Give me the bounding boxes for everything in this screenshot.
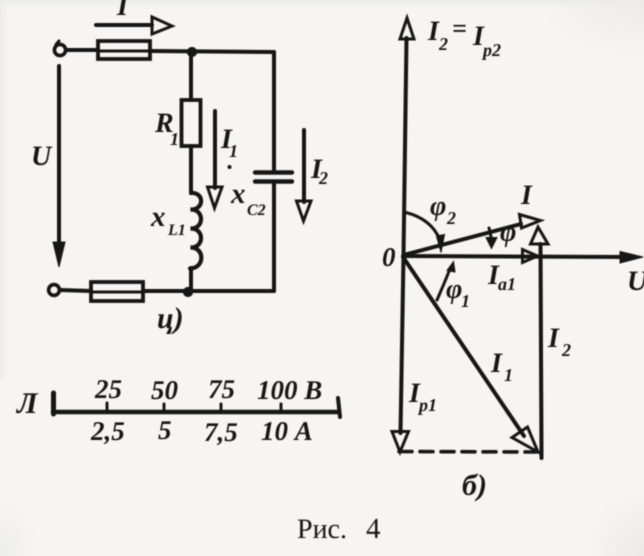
svg-text:=: = <box>452 14 467 43</box>
svg-text:1: 1 <box>504 365 513 385</box>
inductor xL1 <box>190 193 201 269</box>
svg-text:φ: φ <box>430 191 446 222</box>
svg-text:U: U <box>31 141 53 172</box>
arrow voltage U <box>53 66 65 267</box>
wire top left <box>66 48 98 52</box>
svg-text:2: 2 <box>561 340 571 360</box>
svg-text:I: I <box>490 348 503 379</box>
dashed line <box>399 450 536 454</box>
axis U horizontal <box>403 252 643 264</box>
vector I2 right side <box>531 227 549 458</box>
svg-text:25: 25 <box>94 374 122 404</box>
svg-text:φ: φ <box>500 217 516 248</box>
resistor R1 <box>182 100 201 146</box>
svg-text:50: 50 <box>151 375 179 405</box>
svg-text:L1: L1 <box>167 222 186 239</box>
wire bottom <box>143 289 274 293</box>
terminal T2 bottom <box>49 285 60 296</box>
svg-text:Рис.: Рис. <box>297 514 347 545</box>
label R1 <box>154 108 179 149</box>
label I1 phasor <box>490 348 513 385</box>
arrow current I <box>96 17 172 34</box>
junction node B <box>183 287 192 296</box>
wire R1 branch top <box>189 54 193 100</box>
svg-text:0: 0 <box>382 242 396 272</box>
svg-text:2: 2 <box>318 168 328 188</box>
svg-text:р1: р1 <box>417 395 437 415</box>
arrow current I1 <box>208 111 223 208</box>
svg-text:C2: C2 <box>247 202 266 219</box>
svg-text:5: 5 <box>158 415 172 445</box>
label xL1 <box>150 201 186 239</box>
svg-text:2,5: 2,5 <box>90 416 125 446</box>
label Ia1 <box>487 260 516 294</box>
svg-text:φ: φ <box>446 274 462 305</box>
svg-text:2: 2 <box>438 34 448 54</box>
svg-text:I: I <box>520 180 533 211</box>
wire R1 to coil <box>189 146 193 193</box>
svg-text:1: 1 <box>229 141 238 161</box>
label phi2 <box>430 191 456 228</box>
svg-text:б): б) <box>462 469 487 502</box>
wire right branch lower <box>272 183 276 291</box>
scale labels volts <box>94 374 322 405</box>
fuse F1 <box>98 41 150 59</box>
arc phi1 <box>437 262 455 301</box>
label I2=Ip2 <box>427 14 501 60</box>
terminal T1 top <box>54 44 65 55</box>
svg-text:100 В: 100 В <box>257 375 322 405</box>
label I2 right <box>547 323 571 360</box>
wire top to corner <box>150 51 274 52</box>
svg-text:p2: p2 <box>481 40 501 60</box>
wire bottom left <box>60 290 91 291</box>
wire coil to bottom <box>189 268 193 291</box>
vector Ia1 arrowhead <box>523 250 538 263</box>
svg-text:4: 4 <box>366 513 381 545</box>
scale labels amps <box>90 415 313 447</box>
svg-text:I: I <box>116 0 129 22</box>
vector I1 <box>403 257 538 452</box>
svg-text:I: I <box>547 323 560 354</box>
wire right branch upper <box>272 52 276 170</box>
fuse F2 <box>91 282 143 301</box>
svg-text:ц): ц) <box>157 302 184 335</box>
svg-text:x: x <box>230 178 246 210</box>
label I1 <box>220 124 238 169</box>
junction node A <box>187 47 196 56</box>
svg-text:U: U <box>627 266 644 297</box>
svg-text:1: 1 <box>461 291 470 311</box>
arc phi2 <box>406 213 445 253</box>
svg-text:7,5: 7,5 <box>204 417 238 447</box>
svg-text:2: 2 <box>446 208 456 228</box>
label xC2 <box>230 178 266 219</box>
svg-text:1: 1 <box>170 129 179 149</box>
vector Ip1 down <box>392 256 409 452</box>
svg-text:Л: Л <box>15 387 39 420</box>
label phi1 <box>446 274 470 311</box>
label I2 <box>310 154 328 188</box>
label Ip1 <box>408 378 437 415</box>
capacitor xC2 <box>255 173 292 182</box>
arrow current I2 <box>297 130 312 221</box>
svg-text:а1: а1 <box>498 274 516 294</box>
arrow phi <box>486 228 497 249</box>
svg-text:10 А: 10 А <box>261 416 313 446</box>
svg-text:75: 75 <box>208 374 235 404</box>
scale bar <box>53 393 340 417</box>
vector I <box>404 215 541 256</box>
svg-text:x: x <box>150 201 166 233</box>
axis I2=Ip2 vertical <box>400 18 414 256</box>
